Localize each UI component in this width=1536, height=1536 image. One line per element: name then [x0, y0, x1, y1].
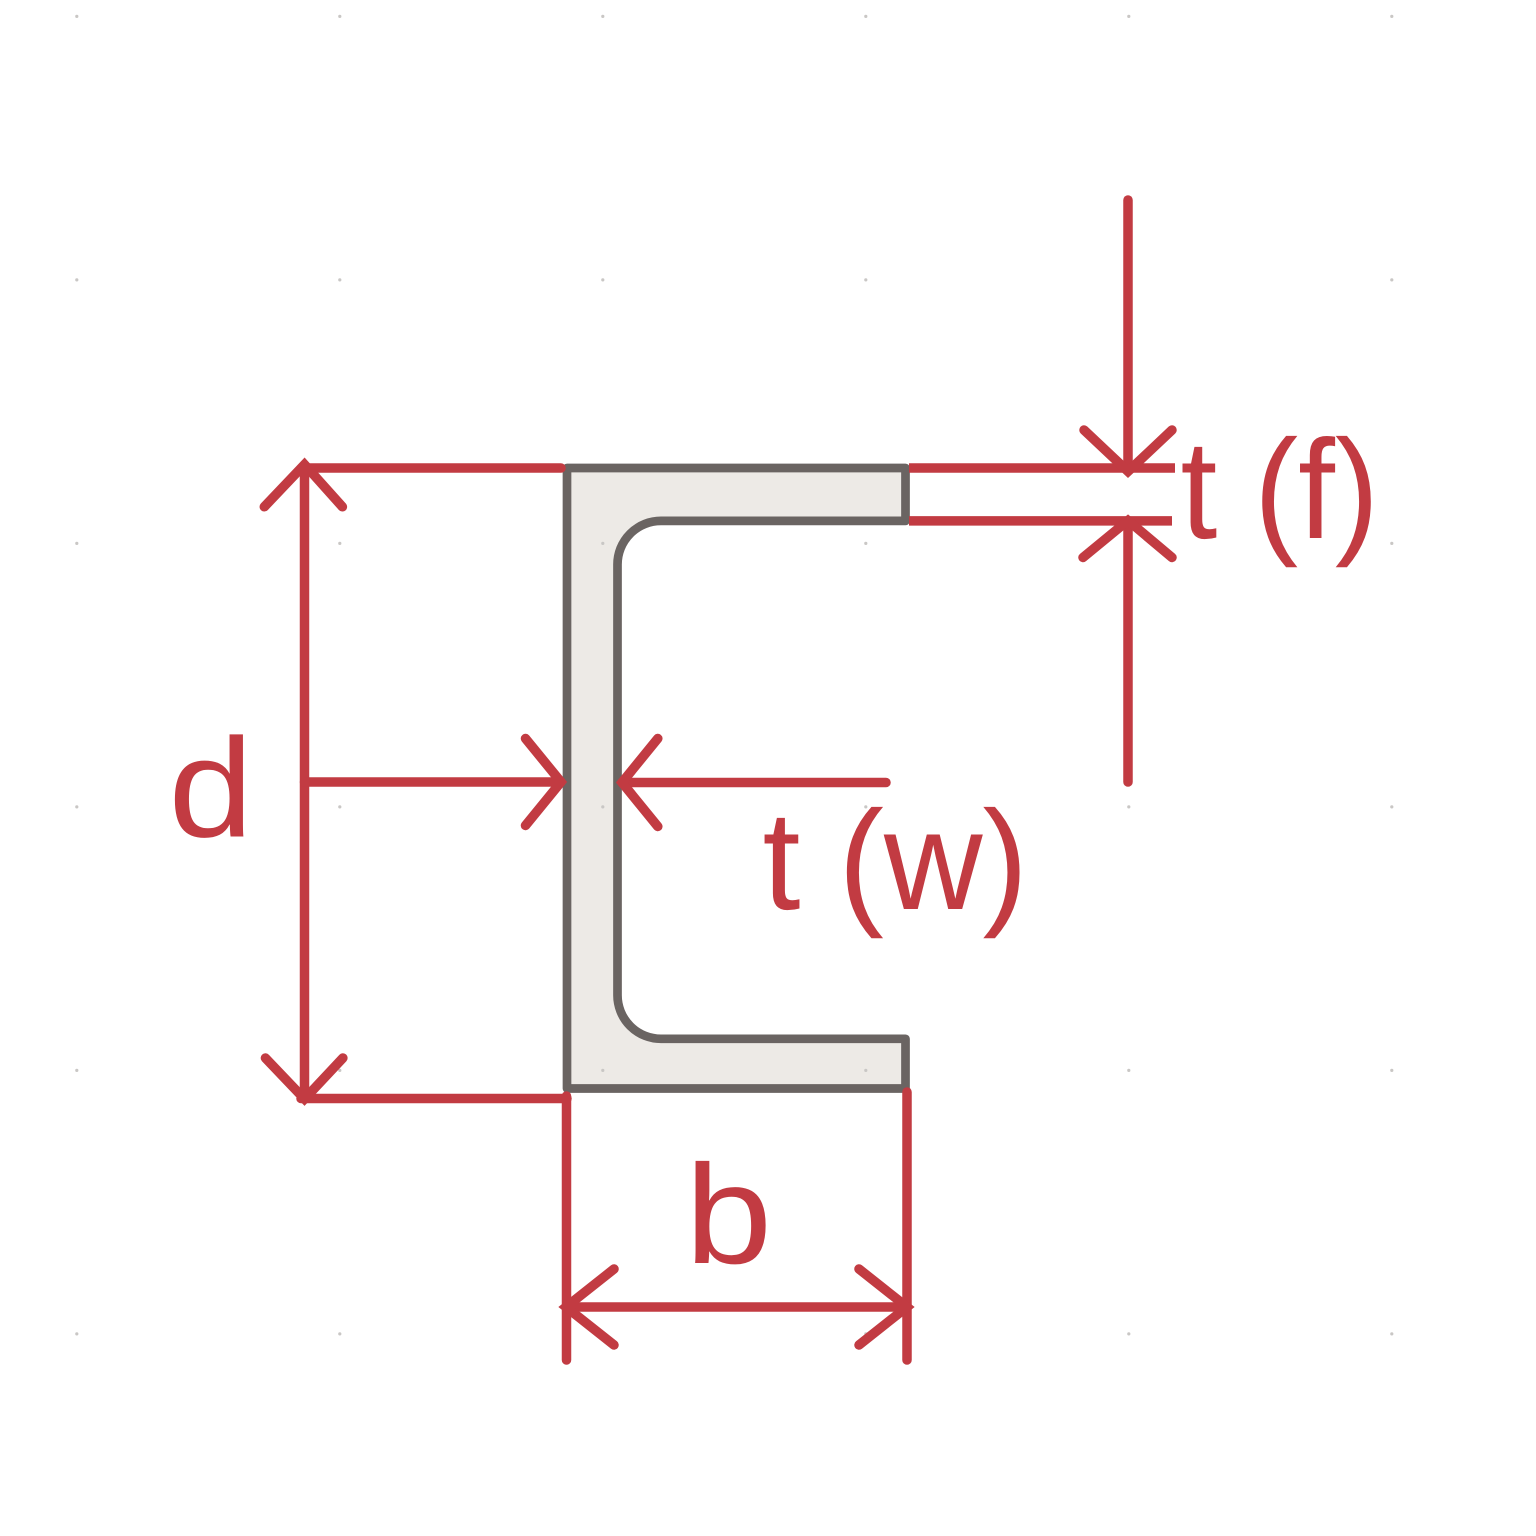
- svg-text:d: d: [169, 709, 254, 867]
- svg-text:t (w): t (w): [763, 781, 1029, 939]
- svg-text:b: b: [685, 1135, 772, 1293]
- svg-text:t (f): t (f): [1181, 410, 1380, 568]
